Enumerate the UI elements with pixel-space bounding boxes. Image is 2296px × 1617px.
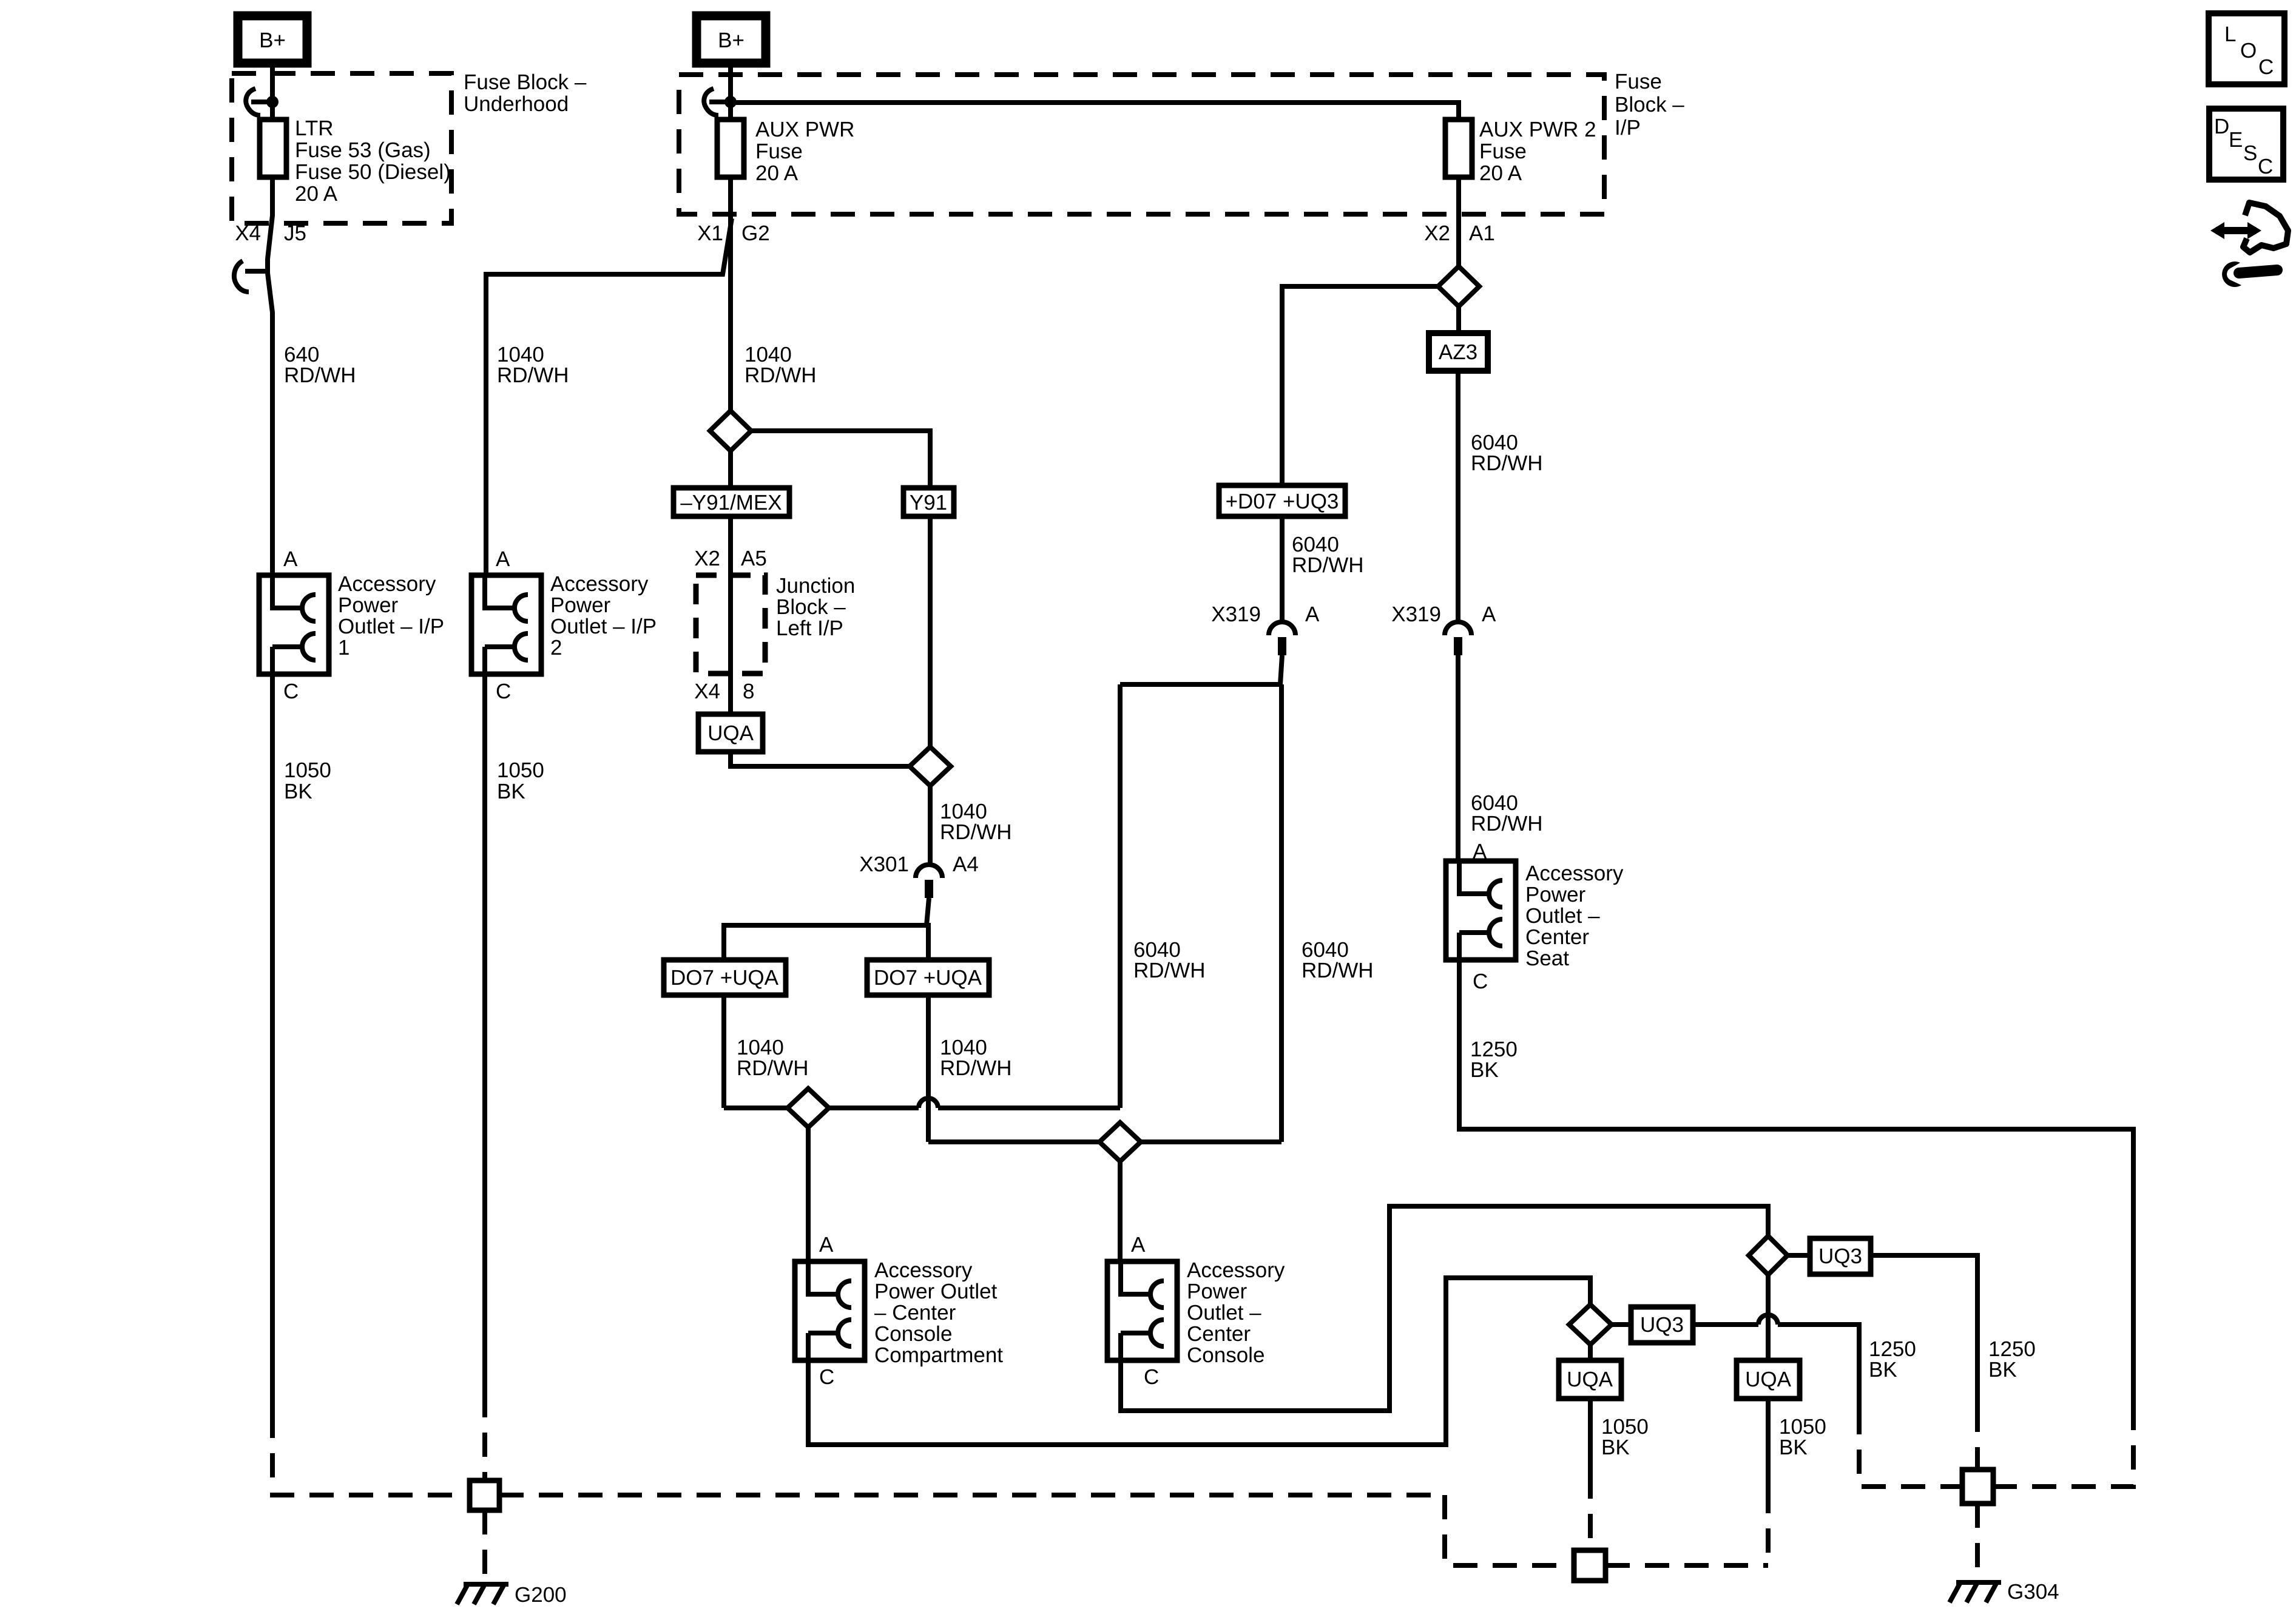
dashed lead to G304 [1975, 1504, 1980, 1578]
svg-text:A5: A5 [741, 547, 767, 570]
splice diamond left UQ3 [1569, 1305, 1612, 1345]
svg-text:Outlet – I/P: Outlet – I/P [338, 615, 444, 638]
wire label 1040 RD/WH (middle DO7) [940, 1036, 1012, 1080]
wire UQA to splice 2 [731, 752, 910, 766]
svg-text:Outlet –: Outlet – [1187, 1301, 1261, 1325]
svg-text:B+: B+ [718, 29, 745, 52]
dashed bus from G200 line down to center splice [1445, 1495, 1574, 1565]
option box AZ3 [1429, 333, 1488, 371]
wire X301 to middle DO7 [927, 925, 928, 960]
bus wire middle DO7 to right outlet feed [928, 1139, 1281, 1144]
Fuse Block - Underhood label [464, 70, 587, 116]
svg-text:Fuse Block –: Fuse Block – [464, 70, 587, 94]
wire top diamond down to middle UQA [1766, 1275, 1771, 1360]
svg-text:1050: 1050 [284, 758, 331, 782]
Accessory Power Outlet - Center Seat label [1525, 862, 1624, 970]
svg-text:RD/WH: RD/WH [1471, 812, 1543, 836]
wire label 1050 BK (outlet 2) [497, 758, 544, 803]
svg-text:Left I/P: Left I/P [776, 616, 843, 640]
svg-text:Center: Center [1187, 1322, 1251, 1346]
fuse LTR, Fuse 53 (Gas) / Fuse 50 (Diesel), 20 A [260, 120, 286, 177]
svg-text:LTR: LTR [295, 116, 334, 140]
svg-text:–Y91/MEX: –Y91/MEX [680, 491, 782, 515]
wire middle DO7 down (through hop) [926, 995, 931, 1142]
svg-text:G2: G2 [741, 221, 770, 245]
svg-text:X4: X4 [694, 680, 720, 703]
svg-text:BK: BK [284, 780, 312, 803]
option box UQ3 (top) [1810, 1238, 1871, 1274]
splice diamond right console outlet [1099, 1122, 1141, 1161]
svg-text:Outlet – I/P: Outlet – I/P [550, 615, 657, 638]
option box UQA (junction block output) [698, 714, 763, 752]
svg-text:Fuse: Fuse [1615, 70, 1662, 93]
svg-text:C: C [1144, 1365, 1159, 1389]
wire AUX PWR 2 fuse to splice [1456, 177, 1461, 266]
wire splice to Y91 option [751, 431, 930, 488]
dashed lead to G200 [482, 1510, 487, 1578]
B+ terminal 2 [697, 16, 766, 63]
wire 1050 BK below left UQA [1588, 1399, 1593, 1474]
wire B+ 2 into fuse block [728, 63, 733, 120]
Accessory Power Outlet - I/P 2 label [550, 572, 657, 660]
fuse AUX PWR 20 A [717, 120, 744, 177]
connector X2/A5 labels [694, 547, 767, 570]
svg-text:RD/WH: RD/WH [1133, 959, 1206, 982]
wire splice to console compartment outlet [806, 1127, 811, 1261]
svg-text:B+: B+ [259, 29, 286, 52]
svg-text:Fuse: Fuse [755, 140, 803, 163]
svg-text:E: E [2229, 128, 2243, 152]
junction dot [266, 96, 279, 108]
svg-text:AUX PWR 2: AUX PWR 2 [1479, 118, 1596, 141]
Accessory Power Outlet - Center Console [1107, 1261, 1177, 1360]
option box Y91 [903, 488, 954, 516]
svg-text:1: 1 [338, 636, 349, 660]
svg-text:Power: Power [1525, 883, 1586, 906]
wire label 1040 RD/WH (outlet 2) [497, 343, 569, 387]
svg-text:Power: Power [338, 593, 399, 617]
wire left diamond down to left UQA [1588, 1345, 1593, 1360]
swap/repair icon: wrench [2222, 262, 2277, 287]
DESC reference box [2209, 109, 2283, 180]
wire 1050 BK outlet 2 (solid) [482, 674, 487, 1393]
wire label 1050 BK [284, 758, 331, 803]
svg-text:1050: 1050 [497, 758, 544, 782]
dashed 1250 BK (left UQ3) into G304 bus [1859, 1410, 1962, 1487]
wire 1050 BK outlet 1 (dashed to ground bus) [272, 1414, 470, 1495]
svg-text:Fuse 53 (Gas): Fuse 53 (Gas) [295, 138, 431, 162]
svg-text:BK: BK [1601, 1436, 1630, 1459]
svg-text:BK: BK [1779, 1436, 1808, 1459]
wire label 1040 RD/WH (to X301) [940, 800, 1012, 844]
svg-text:C: C [283, 680, 299, 703]
svg-text:A: A [1482, 603, 1496, 626]
svg-text:X1: X1 [697, 221, 723, 245]
wire 6040 (right drop) down to bus [1279, 684, 1284, 1142]
svg-text:+D07 +UQ3: +D07 +UQ3 [1226, 490, 1339, 513]
wire hook to junction 2 [709, 100, 731, 104]
option box UQA (left) [1559, 1360, 1621, 1399]
wire label 6040 RD/WH (center seat) [1471, 791, 1543, 836]
wire label 640 RD/WH [284, 343, 356, 387]
Accessory Power Outlet - I/P 1 label [338, 572, 444, 660]
svg-text:G304: G304 [2007, 1580, 2059, 1604]
splice diamond below X1/G2 [710, 411, 751, 451]
splice diamond below X2/A1 [1438, 266, 1479, 306]
hook symbol at node [246, 89, 260, 115]
svg-text:20 A: 20 A [1479, 161, 1522, 185]
wire C console outlet to top UQ3 splice [1121, 1206, 1768, 1411]
svg-text:C: C [819, 1365, 834, 1389]
dashed bus center splice to middle UQA drop [1606, 1563, 1768, 1568]
junction dot 2 [724, 96, 737, 108]
svg-text:O: O [2240, 39, 2257, 62]
svg-text:BK: BK [1869, 1358, 1897, 1382]
wire Y91 down to splice 2 [928, 516, 933, 747]
dashed 1050 BK into center splice square [1588, 1474, 1593, 1550]
svg-text:Y91: Y91 [910, 491, 947, 515]
Accessory Power Outlet - Center Console Compartment [795, 1261, 865, 1360]
wire diamond to top UQ3 box [1788, 1253, 1810, 1258]
svg-text:C: C [2258, 55, 2274, 79]
wire 1050 BK outlet 1 (solid) [270, 674, 275, 1414]
option box UQ3 (left) [1631, 1307, 1693, 1343]
svg-text:RD/WH: RD/WH [497, 363, 569, 387]
wire through junction block [728, 575, 733, 714]
svg-text:A1: A1 [1469, 221, 1495, 245]
fuse AUX PWR 2 20 A [1445, 120, 1472, 177]
wire label 1250 BK (top UQ3) [1988, 1337, 2036, 1382]
svg-text:Seat: Seat [1525, 947, 1569, 970]
wire branch from X1/G2 to outlet 2 [486, 218, 732, 575]
svg-text:RD/WH: RD/WH [940, 820, 1012, 844]
G304 splice square [1962, 1470, 1993, 1504]
option box +D07 +UQ3 [1219, 485, 1345, 516]
svg-text:Power: Power [550, 593, 611, 617]
svg-text:Console: Console [1187, 1343, 1264, 1367]
wire splice to -Y91/MEX option [728, 451, 733, 488]
wire left UQ3 with hop to 1250 BK drop [1693, 1315, 1859, 1410]
wire 1250 BK dashed into G304 bus [1993, 1406, 2133, 1487]
option box UQA (middle) [1737, 1360, 1800, 1399]
svg-text:L: L [2224, 22, 2236, 46]
swap/repair icon: harness outline [2243, 203, 2288, 252]
splice diamond top UQ3 [1749, 1236, 1788, 1275]
wire diamond to left UQ3 box [1612, 1322, 1631, 1327]
svg-text:X319: X319 [1211, 603, 1261, 626]
svg-text:DO7 +UQA: DO7 +UQA [670, 966, 779, 990]
svg-text:X301: X301 [859, 852, 909, 876]
svg-text:X2: X2 [694, 547, 720, 570]
svg-text:RD/WH: RD/WH [737, 1056, 809, 1080]
option box DO7 +UQA (middle) [867, 960, 989, 995]
svg-text:RD/WH: RD/WH [940, 1056, 1012, 1080]
wire splice 2 to X301 [928, 786, 933, 865]
ground G200 [457, 1584, 508, 1604]
wire top UQ3 to 1250 BK drop [1871, 1255, 1977, 1408]
wire label 6040 RD/WH (left drop) [1133, 938, 1206, 982]
svg-text:Junction: Junction [776, 574, 855, 598]
Fuse Block - I/P label [1615, 70, 1684, 140]
wire AZ3 to X319 (right) [1456, 371, 1460, 622]
Accessory Power Outlet - I/P 1 [259, 575, 329, 674]
svg-text:BK: BK [497, 780, 525, 803]
svg-text:C: C [1473, 970, 1488, 993]
connector X4/8 labels [694, 680, 754, 703]
wire label 1040 RD/WH (left DO7) [737, 1036, 809, 1080]
svg-text:A: A [819, 1233, 834, 1257]
svg-text:C: C [2258, 155, 2273, 178]
Fuse Block - I/P (dashed enclosure) [679, 75, 1604, 214]
Accessory Power Outlet - Center Console Compartment label [874, 1258, 1003, 1367]
svg-text:Center: Center [1525, 925, 1589, 949]
wire AZ3 branch from splice [1456, 306, 1461, 333]
connector X2/A1 labels [1424, 221, 1495, 245]
connector X4/J5 labels [235, 221, 306, 245]
svg-text:Accessory: Accessory [874, 1258, 973, 1282]
svg-text:A: A [283, 547, 298, 571]
wire 6040 from X319 (left) down to bus [1118, 684, 1123, 1108]
svg-text:20 A: 20 A [755, 161, 799, 185]
Junction Block - Left I/P label [776, 574, 855, 640]
wire hook to junction [251, 100, 272, 104]
dashed ground bus to the right [499, 1493, 1445, 1497]
svg-text:Power Outlet: Power Outlet [874, 1280, 998, 1303]
svg-text:A: A [1305, 603, 1320, 626]
in-line connector X301 pin A4 [916, 865, 942, 898]
svg-text:A: A [1131, 1233, 1146, 1257]
wire label 6040 RD/WH (right drop) [1302, 938, 1374, 982]
center splice square [1574, 1550, 1606, 1581]
svg-text:UQ3: UQ3 [1640, 1313, 1684, 1337]
wire X301 to DO7 splits [724, 898, 929, 960]
svg-text:UQ3: UQ3 [1818, 1244, 1862, 1268]
svg-text:Accessory: Accessory [550, 572, 649, 596]
svg-text:X319: X319 [1391, 603, 1441, 626]
option box -Y91/MEX [674, 488, 789, 516]
svg-text:S: S [2243, 141, 2257, 165]
svg-text:A: A [496, 547, 510, 571]
AUX PWR fuse label [755, 118, 854, 185]
svg-text:BK: BK [1988, 1358, 2017, 1382]
wire X319 (left) splitting to drops [1120, 655, 1282, 684]
svg-text:UQA: UQA [707, 721, 754, 745]
svg-text:D: D [2214, 115, 2229, 138]
wire label 1250 BK (center seat) [1470, 1038, 1518, 1082]
connector X319/A labels (right) [1391, 603, 1496, 626]
option box DO7 +UQA (left) [664, 960, 786, 995]
svg-text:UQA: UQA [1745, 1368, 1792, 1391]
wire +D07 +UQ3 to X319 [1280, 516, 1285, 622]
ground bus splice square G200 [470, 1480, 499, 1510]
wire 1050 BK below middle UQA [1766, 1399, 1771, 1489]
splice diamond 2 (Y91 join) [910, 747, 951, 786]
svg-text:Fuse 50 (Diesel): Fuse 50 (Diesel) [295, 160, 451, 184]
splice diamond left console outlet [788, 1089, 829, 1127]
connector X301/A4 labels [859, 852, 979, 876]
svg-text:Accessory: Accessory [1525, 862, 1624, 885]
svg-text:X2: X2 [1424, 221, 1450, 245]
wire 1250 BK center seat [1459, 960, 2133, 1406]
svg-text:RD/WH: RD/WH [1292, 553, 1364, 577]
svg-text:– Center: – Center [874, 1301, 956, 1325]
svg-text:J5: J5 [284, 221, 306, 245]
wire B+ 1 into fuse block [270, 63, 275, 120]
svg-text:2: 2 [550, 636, 562, 660]
svg-text:C: C [496, 680, 511, 703]
ground G304 [1950, 1582, 2001, 1602]
wire label 1040 RD/WH (main) [745, 343, 817, 387]
svg-text:A4: A4 [953, 852, 979, 876]
svg-text:X4: X4 [235, 221, 261, 245]
wire label 1250 BK (left UQ3) [1869, 1337, 1916, 1382]
wire label 1050 BK (middle UQA) [1779, 1415, 1826, 1459]
Junction Block - Left I/P (dashed enclosure) [696, 575, 765, 673]
svg-text:UQA: UQA [1567, 1368, 1613, 1391]
wire label 6040 RD/WH (AZ3 branch) [1471, 431, 1543, 475]
svg-text:Fuse: Fuse [1479, 140, 1527, 163]
Fuse Block - Underhood (dashed enclosure) [232, 73, 451, 223]
bus wire with crossover hop (left outlet feed) [724, 1098, 1120, 1108]
svg-text:Block –: Block – [1615, 93, 1684, 116]
Accessory Power Outlet - I/P 2 [471, 575, 541, 674]
svg-text:RD/WH: RD/WH [1302, 959, 1374, 982]
svg-text:20 A: 20 A [295, 182, 338, 206]
wire splice to console outlet [1118, 1161, 1123, 1261]
connector X319/A labels (left) [1211, 603, 1320, 626]
bus wire to AUX PWR 2 fuse [731, 103, 1459, 120]
svg-text:Compartment: Compartment [874, 1343, 1003, 1367]
B+ terminal 1 [238, 16, 307, 63]
in-line connector X319 pin A (right) [1445, 622, 1471, 655]
connector hook symbol below X4/J5 [234, 261, 268, 292]
wire label 6040 RD/WH (D07 branch) [1292, 533, 1364, 577]
wire label 1050 BK (left UQA) [1601, 1415, 1649, 1459]
svg-text:8: 8 [743, 680, 754, 703]
svg-text:AZ3: AZ3 [1439, 340, 1477, 364]
svg-text:Underhood: Underhood [464, 92, 569, 116]
swap/repair icon: double arrow [2210, 222, 2261, 239]
AUX PWR 2 fuse label [1479, 118, 1596, 185]
svg-text:Outlet –: Outlet – [1525, 904, 1600, 928]
dashed 1250 BK into G304 splice [1975, 1408, 1980, 1470]
connector X1/G2 labels [697, 221, 770, 245]
wire C console compartment to UQ3 splice [808, 1278, 1590, 1445]
wire AUX PWR fuse to X1/G2 [728, 177, 733, 411]
wire X319 (right) to center seat outlet [1456, 655, 1460, 861]
svg-text:Block –: Block – [776, 595, 846, 619]
fuse 53/50 label [295, 116, 451, 206]
wire left DO7 down [721, 995, 726, 1108]
svg-text:BK: BK [1470, 1058, 1499, 1082]
svg-text:RD/WH: RD/WH [745, 363, 817, 387]
svg-text:DO7 +UQA: DO7 +UQA [874, 966, 982, 990]
hook symbol at node 2 [704, 89, 718, 115]
Accessory Power Outlet - Center Console label [1187, 1258, 1285, 1367]
wire -Y91/MEX to junction block [728, 516, 733, 575]
dashed 1050 BK (middle UQA) down to bus [1766, 1489, 1771, 1565]
svg-text:AUX PWR: AUX PWR [755, 118, 854, 141]
Accessory Power Outlet - Center Seat [1446, 861, 1516, 960]
svg-text:Power: Power [1187, 1280, 1248, 1303]
svg-text:RD/WH: RD/WH [1471, 451, 1543, 475]
svg-text:Console: Console [874, 1322, 952, 1346]
in-line connector X319 pin A (left) [1269, 622, 1295, 655]
svg-text:Accessory: Accessory [338, 572, 436, 596]
wire 1050 BK outlet 2 (dashed into G200 splice) [482, 1393, 487, 1480]
svg-text:Accessory: Accessory [1187, 1258, 1285, 1282]
wire fuse to connector X4/J5 [268, 177, 272, 575]
wire splice to +D07 +UQ3 option [1282, 286, 1438, 485]
svg-text:RD/WH: RD/WH [284, 363, 356, 387]
LOC reference box [2209, 13, 2284, 84]
svg-text:G200: G200 [515, 1583, 567, 1607]
svg-text:I/P: I/P [1615, 116, 1641, 140]
